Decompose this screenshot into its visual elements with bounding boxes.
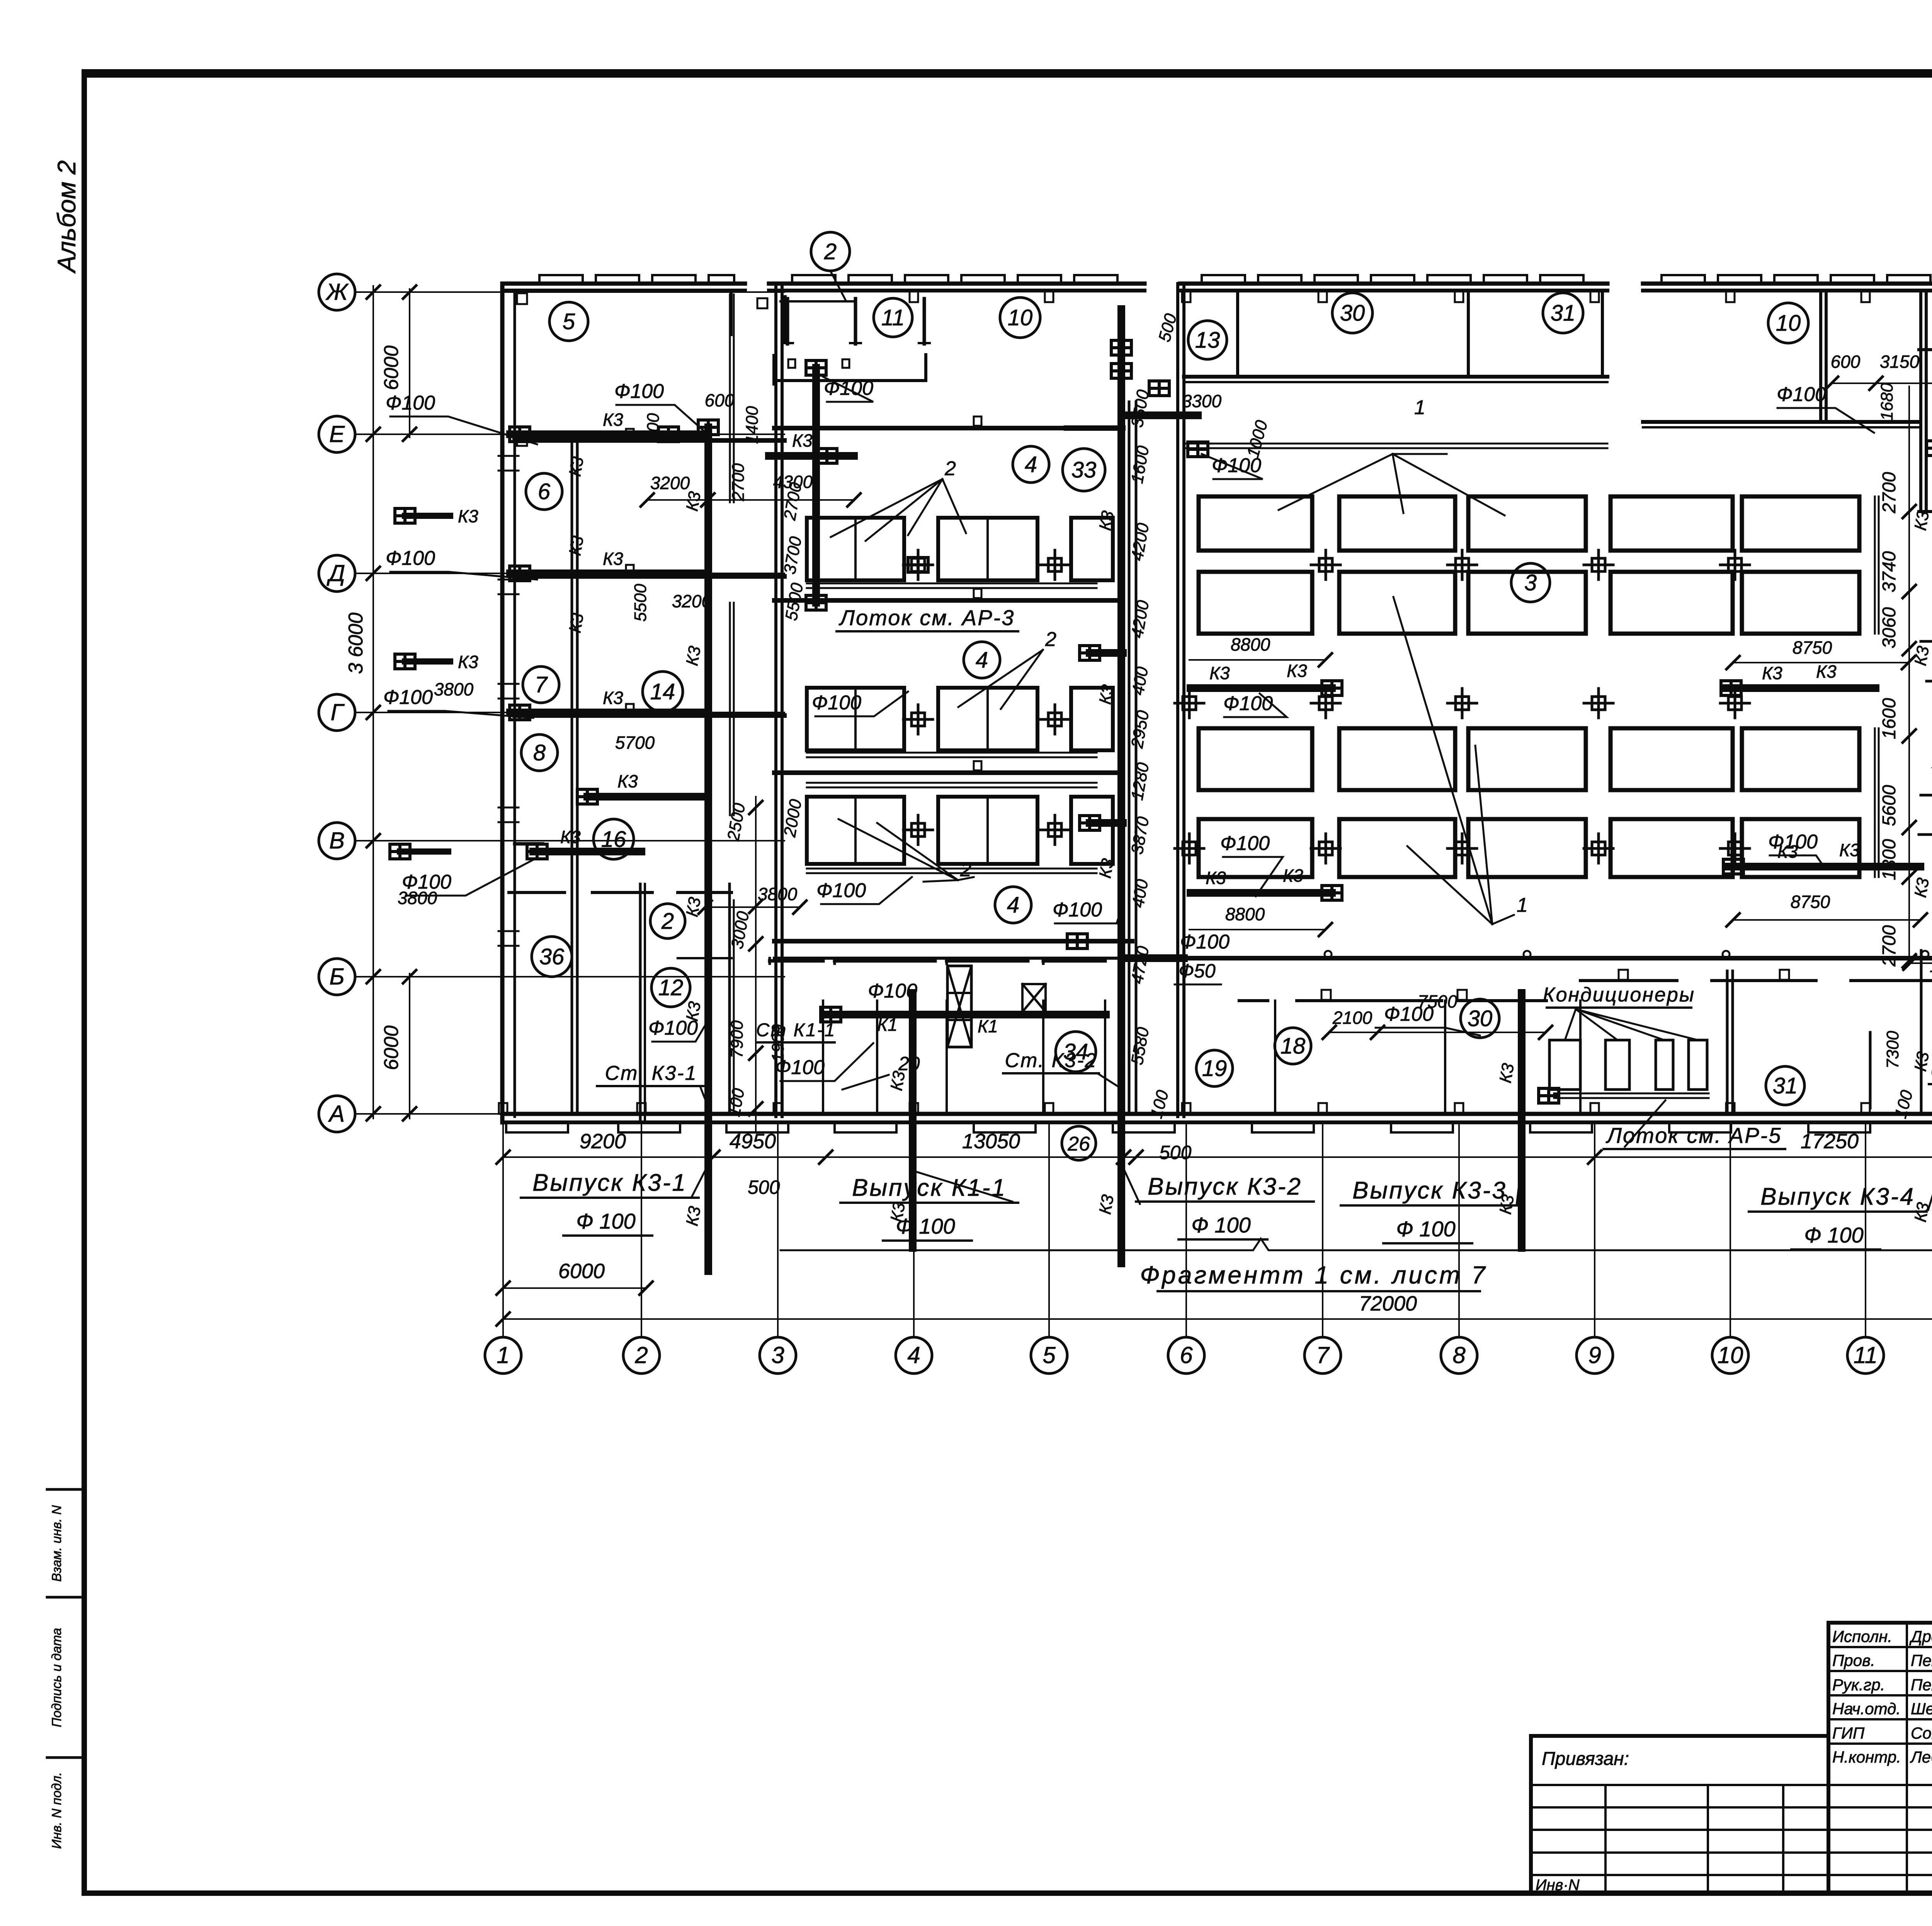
svg-text:К3: К3	[565, 455, 587, 478]
svg-text:Ст. К3-1: Ст. К3-1	[605, 1062, 697, 1085]
svg-text:Ф100: Ф100	[1768, 831, 1818, 853]
svg-text:4: 4	[1007, 892, 1019, 918]
air conditioner units	[1549, 1040, 1580, 1090]
svg-text:Рук.гр.: Рук.гр.	[1832, 1676, 1885, 1694]
svg-text:2500: 2500	[724, 802, 749, 843]
title block grid	[1531, 1734, 1828, 1738]
svg-text:К3: К3	[1287, 661, 1307, 681]
incubator unit	[1199, 819, 1312, 877]
svg-text:3740: 3740	[1879, 551, 1900, 592]
svg-text:К3: К3	[560, 827, 581, 847]
incubator unit	[1468, 728, 1586, 790]
svg-text:Ф 100: Ф 100	[1396, 1217, 1456, 1241]
wall axis Г left block	[515, 713, 784, 718]
wall top segment	[769, 282, 1145, 286]
windows on top wall	[539, 275, 583, 284]
svg-text:5580: 5580	[1128, 1026, 1153, 1066]
incubator unit	[1468, 819, 1586, 877]
svg-text:Инв·N: Инв·N	[1536, 1877, 1580, 1894]
svg-text:Б: Б	[329, 964, 344, 989]
svg-text:Выпуск К3-2: Выпуск К3-2	[1148, 1173, 1302, 1200]
svg-text:К3: К3	[1911, 1201, 1932, 1224]
left vertical dimension chain 36000	[372, 286, 374, 1119]
svg-text:К3: К3	[682, 1205, 704, 1227]
svg-text:2100: 2100	[1332, 1008, 1372, 1028]
svg-text:2700: 2700	[1879, 472, 1900, 513]
svg-text:6000: 6000	[558, 1260, 605, 1283]
incubator unit	[1468, 496, 1586, 551]
svg-text:К3: К3	[1496, 1193, 1518, 1216]
incubator unit	[1339, 496, 1455, 551]
svg-text:8750: 8750	[1793, 637, 1832, 658]
svg-text:Дронова: Дронова	[1909, 1627, 1932, 1646]
incubator unit	[1199, 496, 1312, 551]
svg-text:1: 1	[1414, 396, 1425, 419]
svg-text:2700: 2700	[1879, 925, 1900, 967]
equipment table	[807, 797, 904, 864]
svg-text:К3: К3	[617, 771, 638, 791]
svg-text:А: А	[328, 1101, 345, 1127]
svg-text:400: 400	[1128, 878, 1152, 909]
svg-text:Кондиционеры: Кондиционеры	[1543, 984, 1695, 1006]
svg-text:30: 30	[1340, 301, 1365, 326]
wall under rooms 10/11 right	[1643, 420, 1918, 424]
svg-text:Д: Д	[327, 560, 345, 586]
svg-text:К3: К3	[682, 490, 704, 513]
svg-text:1600: 1600	[1128, 444, 1153, 485]
svg-text:1: 1	[497, 1342, 509, 1368]
svg-text:Подпись и дата: Подпись и дата	[49, 1628, 64, 1727]
room bubble 31	[1766, 1066, 1804, 1105]
channel line across hall	[1184, 443, 1607, 445]
svg-text:К3: К3	[1209, 663, 1230, 683]
svg-text:Ф50: Ф50	[1179, 960, 1216, 982]
hall bottom wall	[1178, 956, 1932, 960]
svg-text:1400: 1400	[743, 406, 762, 444]
svg-text:Пров.: Пров.	[1832, 1651, 1875, 1669]
svg-text:7500: 7500	[1418, 991, 1458, 1011]
equipment table	[807, 518, 904, 580]
room bubble 30	[1332, 293, 1372, 333]
svg-text:Ф100: Ф100	[386, 392, 435, 414]
svg-text:26: 26	[1067, 1133, 1090, 1155]
svg-text:К3: К3	[458, 652, 478, 672]
svg-text:1: 1	[1517, 894, 1528, 916]
svg-text:3870: 3870	[1128, 815, 1153, 856]
svg-text:К3: К3	[1911, 1050, 1932, 1073]
svg-text:Ф100: Ф100	[1223, 692, 1273, 715]
svg-text:8: 8	[533, 740, 546, 765]
svg-text:Ф100: Ф100	[648, 1017, 698, 1039]
svg-text:7900: 7900	[728, 1020, 747, 1058]
svg-text:4: 4	[907, 1342, 920, 1368]
svg-text:2700: 2700	[729, 463, 748, 501]
axis 8	[1441, 1337, 1477, 1374]
riser К3 x2060	[812, 368, 820, 603]
svg-text:3500: 3500	[1128, 388, 1153, 429]
svg-text:5: 5	[1043, 1342, 1056, 1368]
svg-text:К3: К3	[792, 430, 813, 450]
svg-text:К3: К3	[603, 549, 623, 569]
room bubble 33	[1063, 449, 1105, 491]
incubator unit	[1339, 728, 1455, 790]
svg-text:500: 500	[748, 1176, 780, 1198]
incubator unit	[1742, 819, 1859, 877]
svg-text:Выпуск К3-3: Выпуск К3-3	[1352, 1177, 1507, 1204]
wall axis В left block	[515, 842, 543, 846]
svg-text:Ст. К3-2: Ст. К3-2	[1005, 1049, 1097, 1072]
incubator unit	[1742, 728, 1859, 790]
svg-text:8750: 8750	[1791, 892, 1830, 912]
svg-text:1500: 1500	[1930, 956, 1932, 976]
axis 6	[1168, 1337, 1204, 1374]
equipment table	[938, 518, 1037, 580]
room bubble 7	[523, 666, 559, 703]
dim 6000 (Ж-Е)	[409, 289, 410, 437]
walls of table rooms	[774, 426, 1120, 430]
equipment table	[938, 688, 1037, 750]
stub wall room5	[730, 292, 733, 335]
axis Г	[319, 694, 355, 731]
room bubble 30	[1461, 999, 1499, 1038]
svg-text:1000: 1000	[1243, 418, 1272, 460]
svg-text:К3: К3	[603, 410, 623, 430]
svg-text:6: 6	[1180, 1342, 1193, 1368]
svg-text:К3: К3	[565, 612, 587, 634]
wall axis Е left block	[515, 438, 784, 443]
svg-text:2: 2	[634, 1342, 648, 1368]
svg-text:Ф100: Ф100	[816, 879, 866, 902]
incubator unit	[1468, 572, 1586, 634]
svg-text:3060: 3060	[1879, 607, 1900, 648]
svg-text:600: 600	[705, 390, 735, 410]
svg-text:Петрова: Петрова	[1911, 1676, 1932, 1694]
hall side channels	[1874, 496, 1876, 634]
svg-text:Исполн.: Исполн.	[1832, 1627, 1892, 1646]
svg-text:10: 10	[1776, 311, 1801, 336]
axis Ж	[319, 274, 355, 310]
svg-text:К3: К3	[1911, 876, 1932, 899]
svg-text:К3: К3	[682, 644, 704, 667]
room bubble 6	[526, 473, 562, 510]
svg-text:3800: 3800	[434, 679, 474, 699]
svg-text:72000: 72000	[1359, 1292, 1417, 1315]
svg-text:К3: К3	[603, 688, 623, 708]
svg-text:Ф100: Ф100	[868, 980, 917, 1002]
incubator unit	[1611, 496, 1733, 551]
incubator unit	[1339, 572, 1455, 634]
axis 3	[760, 1337, 796, 1374]
fragment bracket	[781, 1239, 1932, 1250]
svg-text:Ст К1-1: Ст К1-1	[756, 1020, 836, 1040]
room bubble 4	[995, 887, 1031, 923]
partition walls lower-left	[639, 884, 642, 1122]
svg-text:2: 2	[824, 239, 837, 264]
svg-text:8800: 8800	[1231, 634, 1270, 654]
svg-text:К3: К3	[1095, 509, 1117, 532]
svg-text:Петрова: Петрова	[1911, 1651, 1932, 1669]
svg-text:Взам. инв. N: Взам. инв. N	[49, 1505, 64, 1582]
svg-text:Г: Г	[331, 699, 345, 725]
central block right wall + corridor	[1128, 402, 1131, 1113]
svg-text:31: 31	[1773, 1073, 1798, 1098]
channel vertical x1893 lower	[729, 603, 731, 815]
svg-text:600: 600	[644, 413, 663, 442]
svg-text:Ф100: Ф100	[1220, 832, 1270, 855]
svg-text:11: 11	[881, 305, 905, 330]
svg-text:Ф100: Ф100	[1180, 931, 1230, 953]
incubator unit	[1742, 496, 1859, 551]
left block corridor wall	[571, 440, 573, 1113]
riser К3-3	[1518, 993, 1526, 1248]
svg-text:4: 4	[976, 648, 988, 673]
svg-text:К1: К1	[978, 1016, 998, 1036]
svg-text:Выпуск К1-1: Выпуск К1-1	[852, 1175, 1007, 1201]
axis 1	[485, 1337, 521, 1374]
svg-text:6: 6	[538, 479, 551, 504]
equipment table	[938, 797, 1037, 864]
svg-text:Ф 100: Ф 100	[1804, 1223, 1864, 1247]
svg-text:5700: 5700	[615, 733, 655, 753]
svg-text:5500: 5500	[782, 581, 807, 622]
svg-text:К3: К3	[1816, 661, 1837, 682]
canopy	[781, 300, 855, 303]
svg-text:10: 10	[1008, 305, 1033, 330]
svg-text:3 6000: 3 6000	[345, 612, 367, 674]
svg-text:Ф 100: Ф 100	[1191, 1213, 1251, 1237]
svg-text:Ф100: Ф100	[1053, 899, 1102, 921]
svg-text:7300: 7300	[1883, 1031, 1902, 1069]
svg-text:3800: 3800	[758, 884, 798, 904]
svg-text:8800: 8800	[1225, 904, 1265, 924]
bottom band partitions	[822, 1001, 824, 1113]
svg-text:5500: 5500	[631, 584, 650, 622]
svg-text:20: 20	[898, 1053, 920, 1074]
equipment table	[1071, 518, 1113, 580]
svg-text:3000: 3000	[728, 910, 753, 950]
svg-text:500: 500	[1159, 1142, 1192, 1163]
channel to AP-5	[1554, 1093, 1709, 1095]
26 circle	[1062, 1126, 1096, 1160]
svg-text:1600: 1600	[1879, 698, 1900, 739]
room bubble 18	[1275, 1028, 1311, 1064]
room bubble 4	[964, 642, 1000, 678]
floating branch symbols left margin	[405, 513, 450, 519]
svg-text:18: 18	[1281, 1034, 1306, 1059]
pipe flanges	[658, 427, 679, 442]
svg-text:Фрагментт 1 см. лист 7: Фрагментт 1 см. лист 7	[1140, 1261, 1487, 1289]
svg-text:5: 5	[563, 309, 575, 334]
axis Е	[319, 416, 355, 452]
svg-text:Ф100: Ф100	[386, 547, 435, 569]
svg-text:Лебская: Лебская	[1910, 1748, 1932, 1766]
svg-text:К3: К3	[887, 1201, 909, 1224]
svg-text:16: 16	[601, 827, 626, 852]
left dim chain x1956	[755, 797, 757, 1132]
bottom band inner wall right part	[1239, 999, 1268, 1002]
axis 7	[1304, 1337, 1341, 1374]
incubator unit	[1611, 728, 1733, 790]
svg-text:1280: 1280	[1128, 761, 1153, 802]
svg-text:14: 14	[650, 679, 675, 704]
channel line room5	[729, 294, 731, 502]
svg-text:2: 2	[661, 909, 674, 934]
svg-text:3200: 3200	[672, 591, 712, 611]
svg-text:К3: К3	[1095, 1193, 1117, 1216]
svg-text:11: 11	[1854, 1342, 1878, 1368]
room bubble 31	[1543, 293, 1583, 333]
svg-text:9: 9	[1588, 1342, 1601, 1368]
wall under rooms 13/30/31	[1184, 375, 1607, 379]
room bubble 2	[811, 232, 850, 271]
svg-text:Ф100: Ф100	[614, 380, 664, 403]
riser К3-1	[704, 427, 712, 1271]
svg-text:К3: К3	[1839, 840, 1860, 860]
svg-text:Инв. N подл.: Инв. N подл.	[49, 1772, 64, 1849]
wall axis Д left block	[515, 574, 784, 579]
svg-text:1680: 1680	[1878, 383, 1896, 421]
equipment table	[1071, 797, 1113, 864]
svg-text:4: 4	[1025, 452, 1037, 477]
svg-text:К3: К3	[1206, 868, 1226, 888]
right section walls	[1919, 291, 1922, 512]
room bubble 8	[521, 734, 558, 771]
room bubble 14	[643, 671, 683, 712]
hall well fittings	[1175, 688, 1204, 718]
К1 horizontal main	[828, 1011, 1106, 1018]
svg-text:7: 7	[535, 672, 548, 697]
svg-text:31: 31	[1551, 301, 1576, 326]
svg-text:К3: К3	[1911, 509, 1932, 532]
svg-text:К3: К3	[1496, 1062, 1518, 1085]
incubator unit	[1611, 819, 1733, 877]
hall top rooms dividers	[1236, 291, 1239, 377]
svg-text:Ж: Ж	[325, 279, 349, 305]
svg-text:2950: 2950	[1128, 709, 1153, 750]
svg-text:3800: 3800	[398, 888, 437, 908]
svg-text:Ф100: Ф100	[383, 686, 433, 709]
room bubble 34	[1056, 1032, 1096, 1072]
room bubble 2	[650, 904, 685, 938]
svg-text:Н.контр.: Н.контр.	[1832, 1748, 1901, 1766]
svg-text:К3: К3	[1095, 683, 1117, 706]
room bubble 4	[1013, 446, 1049, 483]
incubator unit	[1339, 819, 1455, 877]
svg-text:Ст. К3-4: Ст. К3-4	[1931, 1061, 1932, 1082]
svg-text:5600: 5600	[1879, 785, 1900, 826]
svg-text:К3: К3	[458, 506, 478, 526]
axis 10	[1712, 1337, 1748, 1374]
svg-text:2000: 2000	[780, 798, 806, 839]
room bubble 19	[1196, 1050, 1233, 1086]
К3 branch stubs left block	[510, 430, 708, 438]
svg-text:8: 8	[1452, 1342, 1466, 1368]
svg-text:6000: 6000	[380, 345, 403, 390]
svg-text:Лоток см. АР-5: Лоток см. АР-5	[1606, 1123, 1782, 1147]
incubator unit	[1742, 572, 1859, 634]
svg-text:600: 600	[1831, 352, 1861, 372]
left outer wall	[500, 284, 505, 1122]
svg-text:Е: Е	[329, 421, 345, 447]
wall top segment	[502, 282, 745, 286]
svg-text:К1: К1	[877, 1015, 898, 1035]
svg-text:3700: 3700	[780, 535, 805, 576]
incubator unit	[1199, 572, 1312, 634]
room bubble 12	[651, 968, 690, 1007]
axis Б	[319, 959, 355, 995]
wall top segment	[1643, 282, 1932, 286]
axis В	[319, 823, 355, 859]
central block left wall	[774, 284, 777, 1117]
axis 2	[623, 1337, 660, 1374]
svg-text:1300: 1300	[1879, 839, 1900, 880]
dim 6000 (Б-А)	[409, 974, 410, 1119]
svg-text:Нач.отд.: Нач.отд.	[1832, 1700, 1901, 1718]
svg-text:Соколовский: Соколовский	[1911, 1724, 1932, 1742]
stair/shaft with X bracing	[947, 966, 971, 1047]
К3 horizontal runs in hall	[1190, 684, 1332, 692]
small fittings between tables	[903, 550, 933, 580]
bottom dimension row	[503, 1156, 1932, 1158]
svg-text:Ф100: Ф100	[1777, 383, 1826, 406]
svg-text:3300: 3300	[1182, 391, 1222, 411]
svg-text:2: 2	[944, 457, 956, 480]
svg-text:К3: К3	[1095, 857, 1117, 880]
bottom band top walls (left part)	[769, 958, 771, 964]
svg-text:К3: К3	[1762, 663, 1782, 683]
svg-text:Шевнеров: Шевнеров	[1911, 1700, 1932, 1718]
svg-text:3: 3	[771, 1342, 784, 1368]
room bubble 5	[549, 302, 588, 341]
svg-text:4200: 4200	[1128, 599, 1153, 639]
incubator unit	[1611, 572, 1733, 634]
axis 9	[1577, 1337, 1613, 1374]
wall between rooms 10 and 11	[1819, 291, 1822, 422]
svg-text:4200: 4200	[1128, 522, 1153, 562]
room bubble 36	[532, 937, 572, 977]
svg-text:К3: К3	[1283, 865, 1303, 886]
svg-text:Выпуск К3-4: Выпуск К3-4	[1760, 1183, 1915, 1210]
room bubble 3	[1511, 563, 1550, 602]
svg-text:3150: 3150	[1880, 352, 1920, 372]
riser К1	[909, 993, 917, 1248]
svg-text:12: 12	[658, 975, 684, 1000]
room bubble 13	[1188, 321, 1227, 359]
svg-text:Ф100: Ф100	[812, 692, 861, 714]
svg-text:3200: 3200	[650, 473, 690, 493]
channels (лоток)	[807, 583, 1097, 585]
room 11 lower wall	[774, 355, 926, 384]
svg-text:Альбом 2: Альбом 2	[52, 160, 81, 274]
svg-text:400: 400	[1128, 665, 1152, 697]
svg-text:7: 7	[1316, 1342, 1330, 1368]
К3 top connectors central	[769, 452, 854, 460]
svg-text:33: 33	[1071, 457, 1097, 483]
axis 4	[896, 1337, 932, 1374]
dim 72000 overall	[503, 1318, 1932, 1320]
axis Д	[319, 555, 355, 592]
axis 11	[1847, 1337, 1884, 1374]
right corridor dim chain	[1908, 386, 1910, 962]
room bubble 16	[594, 819, 634, 859]
leader for bubble 2 top	[830, 271, 846, 301]
svg-text:2: 2	[1045, 628, 1056, 651]
room bubble 10	[1000, 297, 1040, 338]
svg-text:Выпуск К3-1: Выпуск К3-1	[532, 1170, 687, 1196]
equipment table	[807, 688, 904, 750]
svg-text:Лоток см. АР-3: Лоток см. АР-3	[839, 605, 1015, 630]
svg-text:4720: 4720	[1128, 945, 1153, 985]
